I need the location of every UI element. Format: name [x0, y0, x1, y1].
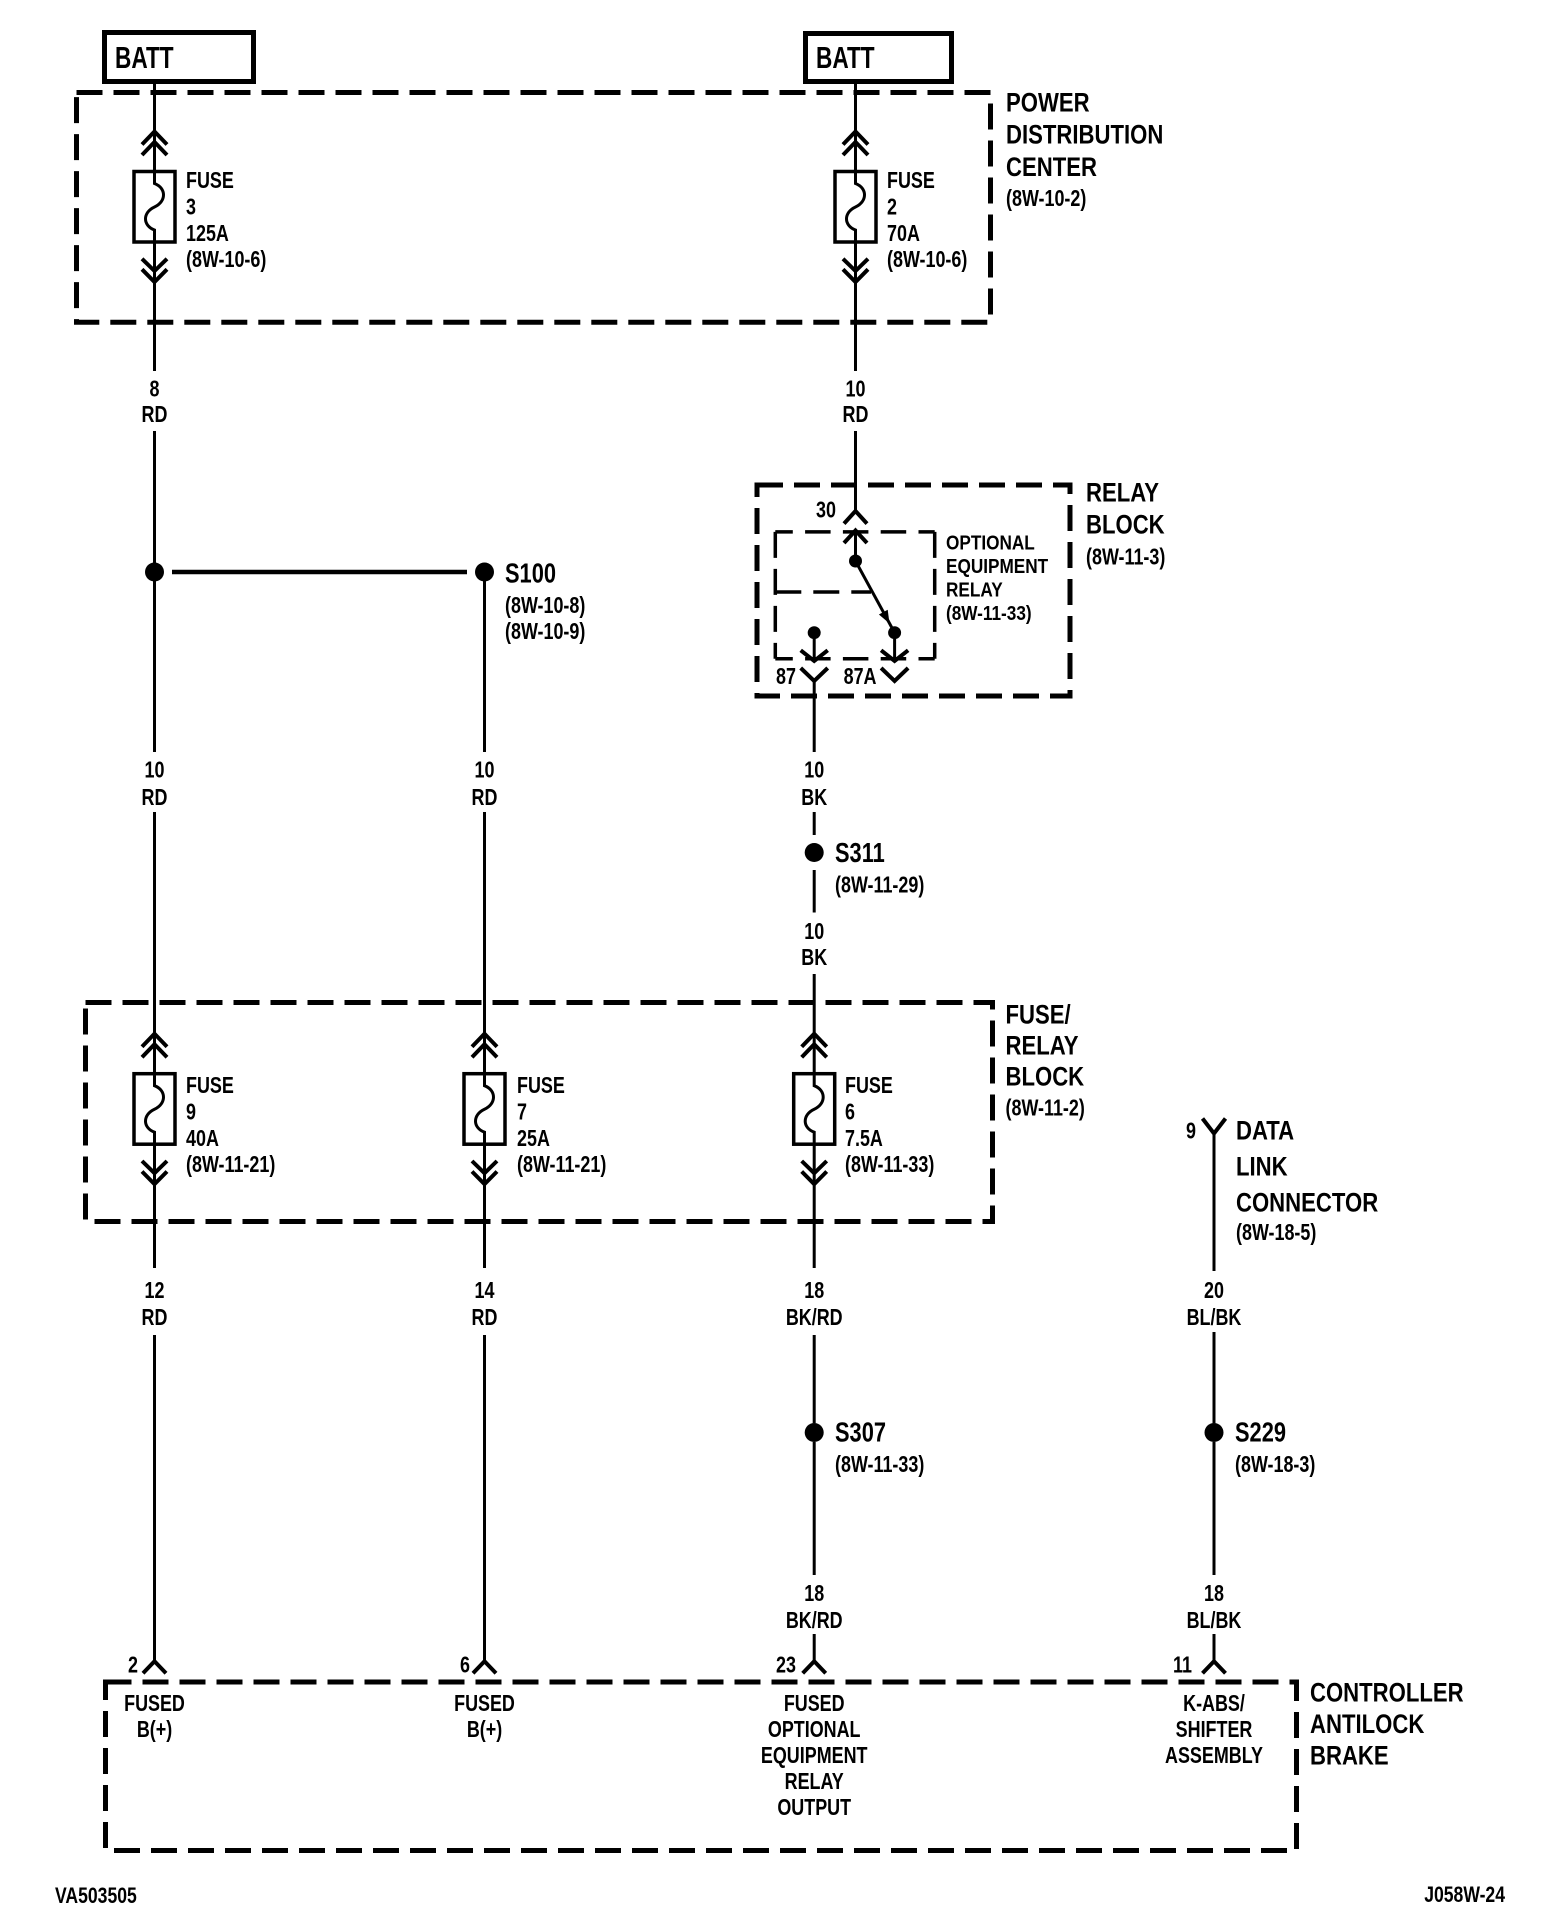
svg-text:9: 9 — [1186, 1118, 1196, 1144]
wire colC2 10RD to relay pin30 connector — [854, 431, 857, 511]
svg-text:(8W-11-21): (8W-11-21) — [186, 1152, 275, 1178]
svg-text:(8W-11-29): (8W-11-29) — [835, 872, 924, 898]
svg-text:DISTRIBUTION: DISTRIBUTION — [1006, 121, 1163, 151]
svg-text:BRAKE: BRAKE — [1310, 1742, 1389, 1772]
svg-text:RELAY: RELAY — [1006, 1032, 1079, 1062]
svg-text:2: 2 — [887, 194, 897, 220]
svg-text:RD: RD — [472, 785, 498, 811]
fuse F2 element curve — [847, 173, 865, 241]
svg-text:BATT: BATT — [816, 39, 875, 74]
wire colC S311 to second 10BK label — [813, 870, 816, 913]
svg-text:FUSE: FUSE — [186, 168, 234, 194]
svg-text:(8W-10-2): (8W-10-2) — [1006, 186, 1086, 212]
svg-text:FUSED: FUSED — [124, 1691, 185, 1717]
svg-text:FUSE: FUSE — [186, 1073, 234, 1099]
svg-text:2: 2 — [128, 1652, 138, 1678]
wire colC 18BKRD to S307 — [813, 1335, 816, 1423]
svg-text:3: 3 — [186, 194, 196, 220]
fuse F9 body — [134, 1074, 175, 1145]
relay pin 30 connector chevron upper — [844, 511, 867, 524]
svg-text:BK: BK — [801, 945, 827, 971]
svg-text:S229: S229 — [1235, 1417, 1286, 1448]
splice S229 dot — [1205, 1423, 1224, 1442]
relay 87 chevron down — [801, 650, 828, 661]
svg-text:11: 11 — [1173, 1652, 1192, 1678]
svg-text:RD: RD — [472, 1305, 498, 1331]
svg-text:6: 6 — [460, 1652, 470, 1678]
svg-text:FUSE: FUSE — [887, 168, 935, 194]
wire colD 18BLBK to pin11 — [1213, 1634, 1216, 1661]
wire colC2 BATT to fuse2 — [854, 84, 857, 172]
svg-text:10: 10 — [804, 757, 824, 783]
wire colA 10RD label to fuse9 — [153, 812, 156, 1074]
svg-text:OPTIONAL: OPTIONAL — [768, 1717, 861, 1743]
relay switch arm arrowhead — [879, 610, 890, 624]
pin 2 connector — [143, 1661, 166, 1673]
svg-text:9: 9 — [186, 1099, 196, 1125]
relay 87A chevron down — [881, 650, 908, 661]
wire colA BATT to fuse3 — [153, 84, 156, 172]
svg-text:(8W-18-5): (8W-18-5) — [1236, 1220, 1316, 1246]
fuse F3 connector chevrons up — [142, 132, 167, 156]
svg-text:25A: 25A — [517, 1126, 550, 1152]
svg-text:BL/BK: BL/BK — [1187, 1608, 1242, 1634]
svg-text:(8W-11-2): (8W-11-2) — [1006, 1095, 1085, 1121]
fuse F7 element curve — [476, 1075, 494, 1143]
svg-text:RELAY: RELAY — [946, 578, 1003, 601]
splice S100 dot left — [145, 563, 164, 582]
svg-text:20: 20 — [1204, 1278, 1224, 1304]
data link connector pin9 Y connector — [1203, 1119, 1226, 1134]
svg-text:S307: S307 — [835, 1417, 886, 1448]
wire colC 18BKRD to pin23 — [813, 1634, 816, 1661]
svg-text:10: 10 — [475, 757, 495, 783]
svg-text:BK: BK — [801, 785, 827, 811]
fuse F9 connector chevrons down — [142, 1161, 167, 1184]
wire colC 10BK to S311 — [813, 812, 816, 835]
svg-text:CONTROLLER: CONTROLLER — [1310, 1679, 1464, 1709]
wire relay pin30 chevron to contact dot — [854, 531, 857, 557]
wire colD DLC tail to 20BLBK label — [1213, 1134, 1216, 1272]
relay common contact dot — [849, 555, 862, 568]
svg-text:RELAY: RELAY — [785, 1769, 844, 1795]
svg-text:(8W-11-33): (8W-11-33) — [845, 1152, 934, 1178]
svg-text:OPTIONAL: OPTIONAL — [946, 531, 1035, 554]
svg-text:6: 6 — [845, 1099, 855, 1125]
battery feed box right — [806, 34, 952, 82]
relay coil-contact divider dashed — [775, 590, 871, 594]
svg-text:B(+): B(+) — [467, 1717, 502, 1743]
svg-text:(8W-10-8): (8W-10-8) — [505, 593, 585, 619]
svg-text:(8W-11-3): (8W-11-3) — [1086, 544, 1165, 570]
relay 87A end chevron — [881, 668, 908, 681]
svg-text:BLOCK: BLOCK — [1006, 1063, 1085, 1093]
svg-text:B(+): B(+) — [137, 1717, 172, 1743]
svg-text:(8W-10-9): (8W-10-9) — [505, 619, 585, 645]
svg-text:BK/RD: BK/RD — [786, 1608, 843, 1634]
svg-text:ASSEMBLY: ASSEMBLY — [1165, 1743, 1263, 1769]
svg-text:CONNECTOR: CONNECTOR — [1236, 1189, 1378, 1219]
svg-text:RD: RD — [142, 402, 168, 428]
svg-text:7.5A: 7.5A — [845, 1126, 883, 1152]
fuse F6 connector chevrons up — [802, 1034, 827, 1058]
splice S311 dot — [805, 843, 824, 862]
fuse F7 connector chevrons up — [472, 1034, 497, 1058]
wire colD 20BLBK to S229 — [1213, 1332, 1216, 1423]
relay 87 contact dot — [808, 626, 821, 639]
svg-text:K-ABS/: K-ABS/ — [1183, 1691, 1245, 1717]
fuse F6 connector chevrons down — [802, 1161, 827, 1184]
fuse F2 body — [835, 172, 876, 243]
relay pin 30 connector chevron on box edge — [844, 531, 867, 544]
svg-text:125A: 125A — [186, 221, 229, 247]
svg-text:8: 8 — [150, 376, 160, 402]
wire colA 12RD to pin2 — [153, 1335, 156, 1661]
pin 11 connector — [1203, 1661, 1226, 1673]
wire colC 10BK to fuse6 — [813, 974, 816, 1074]
svg-text:(8W-18-3): (8W-18-3) — [1235, 1452, 1315, 1478]
svg-text:(8W-10-6): (8W-10-6) — [887, 247, 967, 273]
svg-text:40A: 40A — [186, 1126, 219, 1152]
pin 23 connector — [803, 1661, 826, 1673]
svg-text:ANTILOCK: ANTILOCK — [1310, 1710, 1424, 1740]
fuse F7 body — [464, 1074, 505, 1145]
svg-text:BL/BK: BL/BK — [1187, 1305, 1242, 1331]
svg-text:SHIFTER: SHIFTER — [1176, 1717, 1253, 1743]
wire colB 14RD to pin6 — [483, 1335, 486, 1661]
fuse F7 connector chevrons down — [472, 1161, 497, 1184]
svg-text:18: 18 — [804, 1278, 824, 1304]
svg-text:FUSED: FUSED — [784, 1691, 845, 1717]
wire colA fuse3 to label 8RD — [153, 242, 156, 371]
svg-text:EQUIPMENT: EQUIPMENT — [946, 555, 1049, 578]
wire colB S100 to 10RD label — [483, 572, 486, 752]
svg-text:7: 7 — [517, 1099, 527, 1125]
svg-text:18: 18 — [804, 1581, 824, 1607]
svg-text:23: 23 — [776, 1652, 796, 1678]
wire colC relay pin87 tail to 10BK label — [813, 681, 816, 752]
relay 87 wire to chevron — [813, 639, 816, 660]
fuse F3 body — [134, 172, 175, 243]
battery feed box left — [105, 33, 254, 82]
svg-text:18: 18 — [1204, 1581, 1224, 1607]
wire colB fuse7 to 14RD label — [483, 1144, 486, 1268]
svg-text:RD: RD — [843, 402, 869, 428]
svg-text:BATT: BATT — [115, 39, 174, 74]
svg-text:87: 87 — [776, 664, 796, 690]
fuse F2 connector chevrons down — [843, 259, 868, 282]
svg-text:J058W-24: J058W-24 — [1424, 1883, 1505, 1907]
wire colA fuse9 to label 12RD — [153, 1144, 156, 1268]
svg-text:BLOCK: BLOCK — [1086, 511, 1165, 541]
svg-text:87A: 87A — [844, 664, 877, 690]
svg-text:(8W-11-21): (8W-11-21) — [517, 1152, 606, 1178]
svg-text:RELAY: RELAY — [1086, 479, 1159, 509]
splice S307 dot — [805, 1423, 824, 1442]
svg-text:DATA: DATA — [1236, 1117, 1294, 1147]
pin 6 connector — [473, 1661, 496, 1673]
fuse F3 element curve — [146, 173, 164, 241]
svg-text:10: 10 — [145, 757, 165, 783]
wire S100 horizontal — [172, 570, 467, 575]
fuse F2 connector chevrons up — [843, 132, 868, 156]
svg-text:CENTER: CENTER — [1006, 153, 1097, 183]
svg-text:FUSE: FUSE — [845, 1073, 893, 1099]
svg-text:30: 30 — [816, 497, 836, 523]
wire colC2 fuse2 to label 10RD — [854, 242, 857, 371]
fuse/relay block dashed box — [86, 1003, 993, 1222]
svg-text:EQUIPMENT: EQUIPMENT — [761, 1743, 868, 1769]
svg-text:S100: S100 — [505, 558, 556, 589]
wire colA 8RD to S100 to 10RD label — [153, 431, 156, 752]
wire colB 10RD to fuse7 — [483, 812, 486, 1074]
svg-text:OUTPUT: OUTPUT — [777, 1795, 851, 1821]
fuse F9 element curve — [146, 1075, 164, 1143]
svg-text:(8W-11-33): (8W-11-33) — [835, 1452, 924, 1478]
relay inner dashed box — [775, 532, 934, 659]
fuse F9 connector chevrons up — [142, 1034, 167, 1058]
relay 87A contact dot — [888, 626, 901, 639]
relay 87A wire to chevron — [893, 639, 896, 660]
fuse F6 element curve — [805, 1075, 823, 1143]
svg-text:70A: 70A — [887, 221, 920, 247]
wire colD S229 to 18BLBK label — [1213, 1442, 1216, 1575]
wire colC S307 to bottom 18BKRD label — [813, 1442, 816, 1575]
svg-text:LINK: LINK — [1236, 1153, 1288, 1183]
fuse F3 connector chevrons down — [142, 259, 167, 282]
wire colC fuse6 to 18BKRD label — [813, 1144, 816, 1268]
svg-text:12: 12 — [145, 1278, 165, 1304]
svg-text:10: 10 — [846, 376, 866, 402]
svg-text:RD: RD — [142, 785, 168, 811]
power distribution center dashed box — [77, 93, 991, 323]
relay 87 Y connector — [801, 668, 828, 681]
svg-text:VA503505: VA503505 — [55, 1884, 137, 1908]
svg-text:FUSE/: FUSE/ — [1006, 1001, 1071, 1031]
svg-text:10: 10 — [804, 919, 824, 945]
relay switch arm — [856, 561, 895, 633]
svg-text:FUSED: FUSED — [454, 1691, 515, 1717]
controller antilock brake dashed box — [106, 1682, 1297, 1851]
svg-text:RD: RD — [142, 1305, 168, 1331]
svg-text:(8W-10-6): (8W-10-6) — [186, 247, 266, 273]
relay block dashed box — [757, 485, 1070, 696]
svg-text:FUSE: FUSE — [517, 1073, 565, 1099]
svg-text:14: 14 — [475, 1278, 495, 1304]
fuse F6 body — [794, 1074, 835, 1145]
svg-text:S311: S311 — [835, 837, 885, 868]
svg-text:POWER: POWER — [1006, 89, 1090, 119]
svg-text:(8W-11-33): (8W-11-33) — [946, 602, 1032, 625]
splice S100 dot right — [475, 563, 494, 582]
svg-text:BK/RD: BK/RD — [786, 1305, 843, 1331]
